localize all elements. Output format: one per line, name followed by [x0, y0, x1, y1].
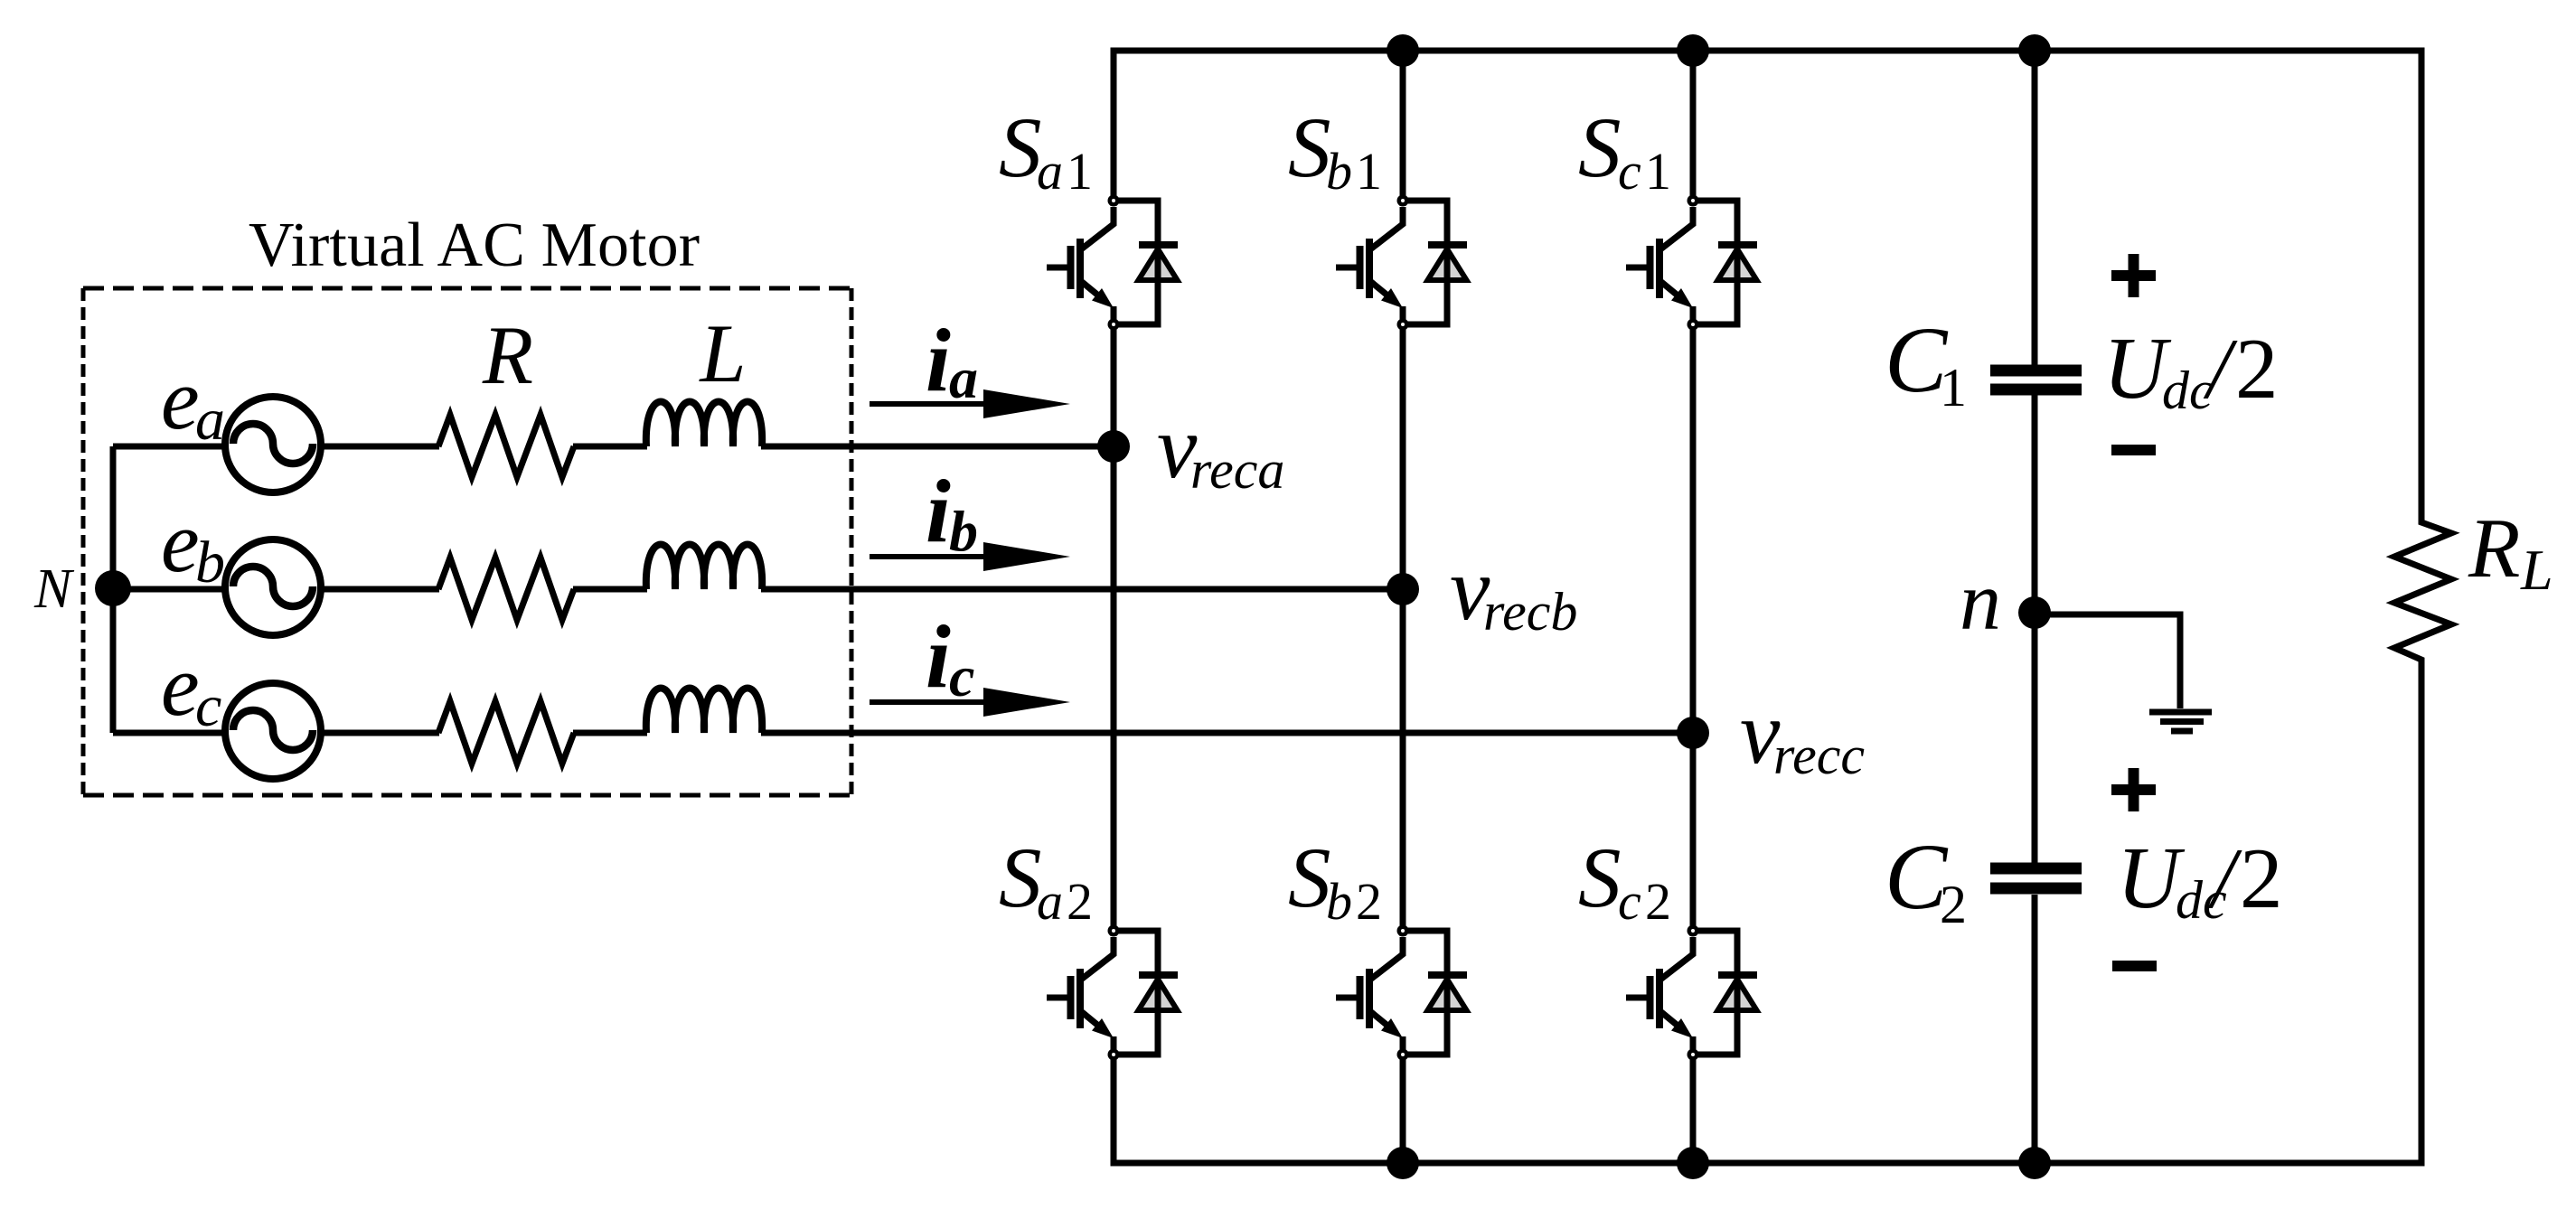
svg-text:a: a: [1037, 142, 1063, 201]
svg-text:S: S: [1578, 830, 1622, 925]
svg-text:b: b: [949, 499, 978, 563]
svg-text:a: a: [949, 346, 978, 410]
svg-text:b: b: [1326, 872, 1352, 931]
svg-text:dc: dc: [2162, 361, 2214, 420]
svg-text:e: e: [161, 637, 200, 734]
svg-text:1: 1: [1067, 142, 1093, 201]
svg-text:S: S: [1288, 830, 1331, 925]
svg-text:recc: recc: [1773, 726, 1865, 785]
svg-text:2: 2: [2240, 830, 2283, 926]
svg-text:a: a: [1037, 872, 1063, 931]
svg-text:1: 1: [1356, 142, 1382, 201]
svg-text:c: c: [1618, 872, 1641, 931]
svg-text:S: S: [1288, 99, 1331, 195]
svg-text:i: i: [926, 310, 951, 410]
svg-text:S: S: [999, 99, 1042, 195]
svg-text:c: c: [195, 673, 221, 739]
svg-text:S: S: [1578, 99, 1622, 195]
svg-text:1: 1: [1645, 142, 1671, 201]
svg-text:2: 2: [1356, 872, 1382, 931]
svg-text:2: 2: [1645, 872, 1671, 931]
svg-text:c: c: [1618, 142, 1641, 201]
svg-text:2: 2: [2235, 321, 2279, 417]
svg-text:n: n: [1960, 555, 2001, 647]
svg-text:R: R: [482, 309, 533, 401]
svg-text:R: R: [2468, 502, 2520, 595]
svg-text:c: c: [949, 644, 974, 708]
svg-text:reca: reca: [1190, 440, 1284, 500]
svg-text:a: a: [195, 387, 225, 453]
svg-text:i: i: [926, 461, 951, 561]
svg-text:2: 2: [1067, 872, 1093, 931]
svg-text:b: b: [195, 530, 225, 595]
svg-text:S: S: [999, 830, 1042, 925]
svg-text:Virtual AC Motor: Virtual AC Motor: [249, 211, 700, 280]
svg-text:L: L: [2520, 538, 2553, 602]
svg-text:b: b: [1326, 142, 1352, 201]
svg-text:i: i: [926, 606, 951, 707]
svg-text:N: N: [33, 558, 75, 620]
svg-text:recb: recb: [1483, 582, 1577, 642]
svg-text:L: L: [698, 307, 746, 399]
svg-text:1: 1: [1940, 358, 1967, 417]
svg-text:2: 2: [1940, 875, 1967, 934]
svg-text:e: e: [161, 493, 200, 590]
svg-text:e: e: [161, 351, 200, 447]
